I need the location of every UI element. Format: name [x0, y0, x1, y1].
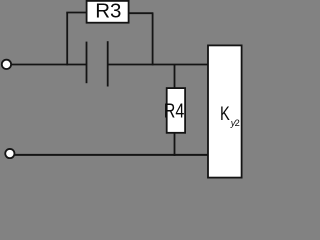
amplifier block U1 (K_y2) — [208, 45, 242, 177]
wire: R4 bottom to bottom wire — [174, 133, 176, 156]
wire: vertical from top wire up to R3 left lead — [66, 13, 68, 66]
capacitor right plate — [107, 41, 109, 86]
svg-text:y2: y2 — [230, 118, 240, 128]
wire: top terminal to capacitor left plate — [11, 64, 86, 66]
resistor R4 — [167, 88, 185, 133]
terminal (input node, top-left) — [2, 60, 11, 69]
wire: vertical from R3 right lead down to main wire — [152, 13, 154, 65]
svg-text:K: K — [220, 104, 230, 125]
svg-text:R4: R4 — [164, 100, 185, 122]
wire: bottom terminal to K box — [14, 154, 208, 156]
wire: vertical from main wire down to R4 top — [174, 65, 176, 89]
svg-text:R3: R3 — [95, 0, 121, 23]
capacitor left plate — [86, 42, 88, 84]
wire: R3 left lead — [66, 12, 86, 14]
resistor R3 — [87, 1, 129, 23]
wire: capacitor right plate to K box — [108, 64, 208, 66]
terminal (input node, bottom-left) — [5, 149, 14, 158]
wire: R3 right lead — [129, 12, 154, 14]
